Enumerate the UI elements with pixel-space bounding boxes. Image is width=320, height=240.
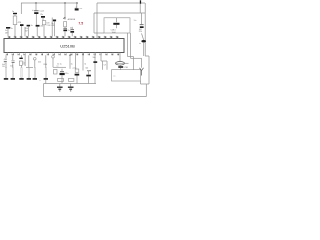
svg-text:n10: n10 bbox=[85, 68, 88, 70]
svg-text:2n2: 2n2 bbox=[38, 61, 41, 63]
wire C24 up bbox=[61, 69, 63, 72]
capacitor C7 plate bbox=[53, 20, 56, 22]
svg-text:7.5: 7.5 bbox=[78, 21, 83, 25]
capacitor C21 plate bbox=[27, 78, 31, 80]
wire C5 to pin bbox=[36, 27, 38, 37]
capacitor C11 bottom plate bbox=[140, 26, 144, 28]
wire bus B horizontal bbox=[131, 57, 142, 59]
mid box top edge bbox=[94, 12, 145, 14]
svg-text:te: te bbox=[139, 42, 141, 45]
wire C16 to C19 bbox=[12, 63, 14, 67]
antenna Y1 left arm bbox=[140, 68, 142, 71]
resistor R4 body bbox=[19, 61, 22, 65]
capacitor C27 plate bbox=[20, 24, 24, 26]
wire C15 to C18 bbox=[5, 63, 7, 68]
crystal X1 oval bbox=[115, 62, 124, 66]
capacitor C20 plate bbox=[19, 78, 23, 80]
wire drop x21 bbox=[20, 3, 22, 14]
wire chain x141.5 lower bbox=[142, 33, 144, 40]
capacitor C25 plate bbox=[75, 74, 80, 76]
capacitor C1 plate bbox=[6, 27, 10, 29]
svg-text:R60: R60 bbox=[44, 64, 47, 66]
capacitor C8 bottom plate bbox=[63, 30, 67, 32]
svg-text:1u: 1u bbox=[11, 28, 13, 30]
wire right rail top link bbox=[145, 55, 149, 57]
crystal X1 equator bbox=[116, 62, 124, 64]
resistor R3 body bbox=[64, 22, 67, 27]
svg-text:22u: 22u bbox=[40, 14, 43, 16]
wire R1 to pin bbox=[14, 25, 16, 37]
capacitor C15 plate bbox=[4, 59, 7, 61]
wire R4 to C20 bbox=[21, 65, 23, 67]
wire C25 stem bbox=[76, 76, 78, 84]
capacitor C10 plate in box bbox=[113, 23, 119, 25]
wire x133.5 down bbox=[133, 57, 135, 71]
wire ground bus y83.5 bbox=[44, 83, 96, 85]
wire bottom bus y96.6 bbox=[44, 96, 147, 98]
node dot at bus end bbox=[76, 2, 78, 4]
wire top-right bus bbox=[97, 2, 145, 4]
wire C27 to pin bbox=[21, 26, 23, 36]
ground GND2 bbox=[68, 84, 74, 91]
resistor R7 body bbox=[54, 70, 58, 75]
node junction at x36 bbox=[35, 2, 37, 4]
wire C6 to R2 bbox=[42, 18, 44, 21]
resistor R8 body bbox=[68, 79, 74, 82]
wire bus y67.3 bbox=[53, 66, 66, 68]
wire box2 to rail bbox=[141, 83, 147, 85]
capacitor C23 body bbox=[45, 68, 46, 78]
capacitor C2 plate bbox=[13, 13, 17, 14]
svg-text:1u: 1u bbox=[71, 64, 73, 66]
wire D1 top bbox=[76, 3, 78, 8]
wire pin to crystal bbox=[119, 53, 121, 62]
wire R3 to C8 bbox=[64, 27, 66, 29]
capacitor C14 plate bbox=[118, 66, 123, 68]
capacitor C22 body bbox=[34, 68, 35, 78]
wire crystal-C14 bbox=[120, 65, 122, 66]
svg-text:22u: 22u bbox=[65, 73, 68, 75]
varistor circle bbox=[34, 58, 37, 61]
wire pin to C18 bbox=[5, 55, 7, 60]
capacitor C11 top plate bbox=[140, 24, 144, 26]
wire net x52.2 bbox=[51, 18, 53, 37]
capacitor C23 plate bbox=[44, 78, 48, 80]
wire C9 up bbox=[71, 27, 73, 30]
wire x95 down bbox=[94, 53, 96, 84]
wire drop x36 bbox=[35, 3, 37, 11]
wire Q1 down bbox=[143, 42, 145, 56]
wire link y67.6 bbox=[26, 67, 33, 69]
capacitor C24 top plate bbox=[60, 71, 64, 73]
capacitor C26 marks bbox=[87, 70, 91, 72]
capacitor C17 plate bbox=[19, 58, 22, 59]
fuse dark tick bbox=[140, 0, 141, 4]
wire C26 stem bbox=[88, 76, 90, 83]
wire pin x101 down bbox=[100, 53, 102, 62]
wire net x25 bbox=[24, 27, 26, 36]
wire C8 to pin bbox=[64, 31, 66, 36]
capacitor C9 top plate bbox=[70, 29, 74, 31]
capacitor C3 plate bbox=[27, 25, 31, 27]
node junction at x65 bbox=[64, 2, 66, 4]
wire outer box left edge x97 bbox=[96, 3, 98, 39]
wire pin to C23 bbox=[45, 55, 47, 67]
wire chain x141.5 upper bbox=[141, 13, 143, 24]
wire bus B down x130.5 bbox=[130, 33, 132, 58]
wire box1 corner v bbox=[102, 61, 104, 70]
resistor R2 body bbox=[42, 21, 45, 25]
wire rail jog bbox=[146, 83, 149, 85]
wire x75.5 down bbox=[75, 53, 77, 70]
wire x83 down bbox=[82, 53, 84, 71]
wire q2 down bbox=[52, 58, 54, 67]
svg-text:U2510B: U2510B bbox=[60, 43, 75, 48]
C15 label bbox=[2, 64, 5, 68]
trimmer mark bbox=[63, 17, 65, 19]
capacitor C6 plate bbox=[41, 16, 45, 18]
mid box left edge bbox=[93, 13, 95, 33]
capacitor C15 bottom bbox=[4, 61, 7, 62]
wire C4 mid bbox=[35, 14, 37, 25]
wire R1 top bbox=[14, 14, 16, 16]
C1 value label bbox=[5, 30, 9, 34]
wire R2 to pin bbox=[43, 25, 45, 37]
svg-text:Y1.8: Y1.8 bbox=[46, 25, 50, 27]
svg-text:1n 1u: 1n 1u bbox=[57, 64, 62, 66]
svg-text:sw..: sw.. bbox=[113, 76, 117, 78]
wire bottom bus left riser bbox=[43, 84, 45, 97]
wire outer box right edge x145 bbox=[144, 3, 146, 56]
mid box bottom edge bbox=[94, 32, 104, 34]
U1 top pin stubs and pin numbers bbox=[8, 36, 118, 39]
C11 value label bbox=[139, 29, 143, 33]
resistor R1 body bbox=[13, 16, 17, 25]
svg-text:10u: 10u bbox=[93, 57, 96, 59]
capacitor C18 body bbox=[5, 68, 6, 78]
wire top supply bus bbox=[21, 2, 78, 4]
wire C23 stem bbox=[45, 80, 47, 84]
svg-text:n1: n1 bbox=[84, 64, 86, 66]
wire C10 top stem bbox=[115, 18, 117, 22]
resistor R5 body bbox=[75, 69, 79, 72]
wire bus A horizontal bbox=[128, 56, 134, 58]
capacitor C4 top plate bbox=[34, 10, 39, 12]
svg-text:5%: 5% bbox=[2, 66, 5, 68]
wire crystal right bbox=[125, 62, 129, 64]
capacitor C21 body bbox=[28, 68, 29, 78]
wire varistor to C22 bbox=[34, 60, 36, 67]
wire C24 stem bbox=[61, 75, 63, 83]
wire right rail x149 bbox=[148, 56, 150, 84]
C3 value label bbox=[25, 25, 33, 32]
op-amp U1 IC body U2510B bbox=[4, 39, 124, 53]
resistor R6 body bbox=[58, 79, 64, 82]
wire C9 to pin bbox=[71, 33, 73, 37]
svg-text:r.e: r.e bbox=[57, 66, 59, 68]
capacitor C8 top plate bbox=[63, 27, 67, 29]
wire x107 down bbox=[106, 61, 108, 70]
wire box2 right ext bbox=[140, 81, 142, 84]
wire crystal stem to box bbox=[120, 68, 122, 70]
capacitor C22 plate bbox=[33, 78, 37, 80]
svg-text:u.c.: u.c. bbox=[80, 8, 84, 10]
capacitor C5 plate bbox=[36, 25, 40, 27]
svg-text:p.1u: p.1u bbox=[73, 67, 77, 69]
capacitor C9 bottom plate bbox=[70, 31, 74, 33]
trimmer dot bbox=[64, 18, 65, 19]
capacitor C24 bottom plate bbox=[60, 73, 65, 75]
wire C3 to pin bbox=[27, 26, 29, 36]
svg-text:1u: 1u bbox=[68, 30, 70, 32]
capacitor C19 body bbox=[12, 68, 13, 78]
capacitor C16 bottom bbox=[12, 62, 15, 63]
wire pin to C20 bbox=[21, 55, 23, 57]
diode D1 body bbox=[75, 8, 79, 10]
capacitor C18 plate bbox=[4, 78, 8, 80]
wire C7 to pin bbox=[54, 21, 56, 36]
wire rail down x146.3 bbox=[145, 84, 147, 97]
svg-text:10n: 10n bbox=[134, 20, 137, 22]
wire box1 corner h bbox=[101, 60, 107, 62]
inner box module bbox=[104, 18, 130, 33]
wire pin to C21 bbox=[28, 55, 30, 67]
capacitor C28 plate bbox=[93, 61, 97, 63]
module box bottom-right bbox=[112, 70, 141, 81]
wire net x25.1 bbox=[24, 55, 26, 66]
wire pin to C19 bbox=[12, 55, 14, 60]
capacitor C20 body bbox=[21, 68, 22, 78]
wire notch vertical x140.2 bbox=[139, 4, 141, 13]
wire bus B to antenna bbox=[141, 58, 143, 68]
antenna Y1 stem bbox=[141, 71, 143, 76]
wire bus A down x127.5 bbox=[127, 33, 129, 57]
svg-text:1a: 1a bbox=[12, 11, 14, 13]
wire x70 down bbox=[69, 55, 71, 69]
wire C26 up bbox=[88, 71, 90, 75]
svg-text:C7: C7 bbox=[104, 64, 106, 66]
transistor Q1 body bbox=[141, 40, 146, 42]
antenna Y1 right arm bbox=[142, 68, 144, 71]
svg-text:ACB07A: ACB07A bbox=[68, 18, 76, 21]
transistor Q2 circle bbox=[52, 56, 55, 59]
C10 value label bbox=[111, 30, 117, 34]
capacitor C4 bottom plate bbox=[34, 12, 38, 14]
capacitor C19 plate bbox=[11, 78, 15, 80]
C7 value label bbox=[51, 23, 55, 27]
node dot x70 bbox=[69, 55, 70, 56]
wire drop x65 bbox=[64, 3, 66, 18]
svg-text:4n: 4n bbox=[70, 27, 72, 29]
ground GND1 bbox=[57, 84, 63, 91]
capacitor C16 plate bbox=[11, 59, 14, 61]
U1 bottom pin stubs and pin numbers bbox=[6, 53, 119, 56]
wire C10 stem bbox=[115, 25, 117, 28]
svg-text:1u: 1u bbox=[31, 25, 33, 27]
capacitor C26 plate bbox=[86, 75, 91, 77]
wire C1 to pin bbox=[7, 29, 9, 37]
